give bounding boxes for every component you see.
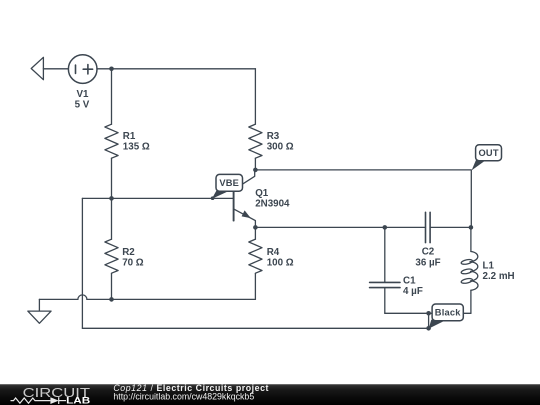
- svg-text:V1: V1: [77, 89, 90, 100]
- wire black node vertical: [428, 313, 430, 328]
- transistor Q1: [234, 170, 256, 228]
- footer bar: [0, 384, 540, 405]
- wire R1 bottom to base node: [111, 158, 113, 198]
- ground (bottom left): [28, 299, 51, 323]
- svg-text:R3: R3: [267, 131, 280, 142]
- node emitter: [253, 225, 258, 230]
- wire V1 plus to top node: [97, 68, 112, 70]
- logo resistor zigzag: [11, 397, 67, 404]
- capacitor C1: [370, 227, 400, 313]
- node base (R1/R2): [109, 196, 114, 201]
- node collector: [253, 168, 258, 173]
- resistor R4: [249, 227, 262, 299]
- resistor R2: [105, 198, 118, 299]
- wire R3 bottom to collector node: [254, 158, 256, 170]
- svg-text:R4: R4: [267, 247, 280, 258]
- wire left vertical (base to feedback): [81, 198, 83, 328]
- label Q1 value: [255, 188, 290, 210]
- wire top node down to R1: [111, 69, 113, 124]
- svg-text:L1: L1: [483, 260, 495, 271]
- svg-text:R2: R2: [122, 247, 135, 258]
- svg-text:VBE: VBE: [219, 178, 239, 188]
- resistor R3: [249, 124, 262, 158]
- flag Black: [429, 304, 464, 329]
- node C2/L1: [469, 225, 474, 230]
- wire collector rail: [255, 170, 471, 228]
- svg-text:C1: C1: [403, 275, 416, 286]
- label C2 value: [415, 247, 440, 269]
- label L1 value: [483, 260, 515, 282]
- flag VBE: [211, 174, 243, 200]
- wire R3 top drop: [254, 69, 256, 124]
- node black bottom: [426, 326, 431, 331]
- voltage source V1: [68, 55, 97, 84]
- svg-text:Black: Black: [435, 308, 461, 318]
- svg-text:R1: R1: [123, 131, 136, 142]
- svg-text:100 Ω: 100 Ω: [267, 258, 294, 269]
- label R4 value: [267, 247, 294, 269]
- svg-text:5 V: 5 V: [75, 100, 90, 111]
- label R1 value: [123, 131, 150, 153]
- svg-text:OUT: OUT: [478, 148, 498, 158]
- wire feedback bottom rail: [82, 327, 428, 329]
- wire emitter rail: [255, 226, 425, 228]
- node R2 bottom: [109, 297, 114, 302]
- resistor R1: [105, 124, 118, 158]
- capacitor C2: [426, 212, 471, 242]
- svg-text:LAB: LAB: [66, 395, 90, 405]
- wire top rail: [112, 68, 256, 70]
- wire bottom loop (C1 to L1): [385, 312, 471, 314]
- ground (left of V1, rotated): [31, 57, 43, 79]
- node top (V1/R1): [109, 67, 114, 72]
- node C1 top: [383, 225, 388, 230]
- svg-text:4 µF: 4 µF: [403, 286, 423, 297]
- label R2 value: [122, 247, 144, 269]
- flag OUT: [472, 145, 502, 171]
- svg-text:2.2 mH: 2.2 mH: [483, 271, 515, 282]
- svg-text:36 µF: 36 µF: [415, 257, 440, 268]
- logo diode: [50, 397, 58, 404]
- label V1 value: [75, 89, 90, 111]
- svg-text:http://circuitlab.com/cw4829kk: http://circuitlab.com/cw4829kkqckb5: [113, 391, 254, 401]
- wire ground rail with hop: [39, 295, 255, 300]
- svg-text:Q1: Q1: [255, 188, 269, 199]
- inductor L1: [461, 227, 478, 313]
- label R3 value: [267, 131, 294, 153]
- svg-text:70 Ω: 70 Ω: [122, 258, 144, 269]
- node black top: [426, 311, 431, 316]
- label C1 value: [403, 275, 423, 297]
- svg-text:C2: C2: [422, 247, 435, 258]
- svg-text:2N3904: 2N3904: [255, 199, 290, 210]
- wire ground to V1 minus: [43, 68, 68, 70]
- wire base rail: [82, 197, 233, 199]
- svg-text:135 Ω: 135 Ω: [123, 142, 150, 153]
- svg-text:300 Ω: 300 Ω: [267, 142, 294, 153]
